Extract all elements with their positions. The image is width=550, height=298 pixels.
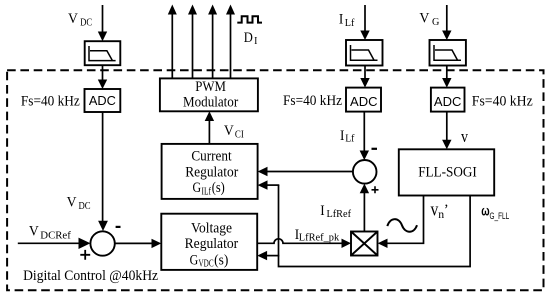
- node VDC input label: [68, 10, 92, 29]
- wire FLL-SOGI omega output down and left: [279, 185, 471, 266]
- current regulator GILf: [162, 144, 258, 199]
- svg-text:Digital Control @40kHz: Digital Control @40kHz: [23, 268, 158, 284]
- label ILfRef: [320, 202, 351, 220]
- svg-text:V: V: [67, 194, 77, 211]
- FLL-SOGI block: [399, 149, 494, 195]
- svg-text:PWM: PWM: [195, 79, 226, 95]
- label DI: [244, 29, 258, 47]
- wire ILf input to filter F2: [360, 5, 369, 40]
- svg-text:Regulator: Regulator: [185, 164, 238, 180]
- label v: [461, 127, 468, 146]
- svg-text:G_FLL: G_FLL: [490, 211, 510, 221]
- ADC A1: [85, 89, 121, 112]
- ADC A2: [346, 88, 381, 112]
- label Digital Control @40kHz: [23, 268, 158, 284]
- label ILf (sampled): [340, 127, 355, 145]
- wire filter F1 to ADC A1: [98, 65, 107, 89]
- wire PWM gate output 1: [168, 5, 177, 79]
- voltage regulator GVDC: [161, 214, 257, 270]
- label plus at summing node S1: [80, 250, 90, 260]
- wire omega feed into current regulator: [258, 180, 280, 189]
- wire ADC A1 to summing node S1: [98, 112, 108, 231]
- label vn': [431, 200, 449, 221]
- label Fs=40 kHz (middle): [283, 93, 342, 109]
- svg-text:I: I: [254, 36, 258, 47]
- node ILf input label: [339, 11, 355, 29]
- svg-text:VDC: VDC: [199, 259, 214, 270]
- svg-text:(s): (s): [214, 253, 228, 269]
- svg-text:DC: DC: [79, 201, 91, 212]
- svg-text:V: V: [224, 122, 234, 139]
- label VDCRef: [29, 223, 71, 242]
- svg-text:LfRef: LfRef: [327, 209, 352, 220]
- svg-text:(s): (s): [212, 180, 225, 196]
- svg-text:LfRef_pk: LfRef_pk: [299, 233, 340, 244]
- svg-text:DCRef: DCRef: [40, 230, 71, 241]
- wire VDC input to filter F1: [98, 5, 107, 41]
- wire ADC A2 to summing node S2: [360, 112, 369, 161]
- filter F3 (anti-aliasing low-pass): [430, 40, 466, 66]
- label VCI: [224, 122, 244, 141]
- svg-text:DC: DC: [80, 18, 92, 29]
- svg-text:Modulator: Modulator: [183, 94, 238, 110]
- svg-text:Fs=40 kHz: Fs=40 kHz: [283, 93, 342, 109]
- svg-text:v: v: [461, 127, 468, 146]
- multiplier M1: [351, 232, 378, 256]
- dashed digital-control boundary box: [7, 70, 543, 290]
- wire PWM gate output 2: [188, 5, 197, 79]
- sine wave symbol on vn' wire: [387, 219, 417, 232]
- label omega G_FLL: [481, 203, 509, 221]
- svg-text:Current: Current: [191, 149, 232, 165]
- pulse waveform symbol DI: [237, 16, 262, 22]
- svg-text:G: G: [432, 17, 440, 28]
- svg-text:Fs=40 kHz: Fs=40 kHz: [472, 94, 533, 110]
- wire PWM gate output 3: [208, 5, 217, 79]
- wire PWM gate output 4: [226, 5, 235, 79]
- label plus at summing node S2: [372, 186, 379, 193]
- wire filter F2 to ADC A2: [360, 66, 369, 88]
- svg-text:Lf: Lf: [345, 134, 355, 145]
- svg-text:V: V: [68, 10, 78, 27]
- svg-text:ω: ω: [481, 203, 489, 218]
- svg-text:V: V: [29, 223, 39, 240]
- label Fs=40 kHz (left): [21, 93, 80, 109]
- label Fs=40 kHz (right): [472, 94, 533, 110]
- svg-text:I: I: [320, 202, 324, 219]
- svg-text:FLL-SOGI: FLL-SOGI: [418, 164, 477, 180]
- PWM modulator: [160, 78, 258, 111]
- node VG input label: [419, 9, 439, 28]
- svg-text:Voltage: Voltage: [191, 221, 232, 237]
- filter F1 (anti-aliasing low-pass): [85, 41, 121, 65]
- svg-text:V: V: [419, 9, 429, 26]
- svg-text:I: I: [339, 11, 343, 28]
- filter F2 (anti-aliasing low-pass): [346, 40, 383, 66]
- label ILfRef_pk: [295, 226, 340, 244]
- label minus at summing node S2: [372, 148, 378, 150]
- svg-text:ADC: ADC: [350, 94, 378, 109]
- svg-text:Regulator: Regulator: [185, 236, 239, 252]
- wire multiplier M1 to summing node S2: [360, 184, 369, 232]
- wire current regulator to PWM modulator (VCI): [205, 111, 214, 144]
- label minus at summing node S1: [116, 226, 121, 228]
- svg-text:ADC: ADC: [89, 93, 116, 108]
- wire filter F3 to ADC A3: [442, 66, 451, 88]
- svg-text:CI: CI: [235, 130, 244, 141]
- wire omega feed into voltage regulator: [257, 251, 279, 260]
- svg-text:ILf: ILf: [202, 186, 212, 197]
- label VDC (feedback): [67, 194, 91, 213]
- wire summing node S2 to current regulator: [258, 167, 353, 176]
- svg-text:’: ’: [444, 202, 449, 218]
- svg-text:D: D: [244, 29, 253, 46]
- svg-text:Fs=40 kHz: Fs=40 kHz: [21, 93, 80, 109]
- svg-text:G: G: [190, 253, 199, 269]
- svg-text:ADC: ADC: [434, 94, 462, 109]
- wire FLL-SOGI vn' output to multiplier M1: [378, 196, 424, 249]
- wire summing node S1 to voltage regulator: [115, 239, 162, 248]
- svg-text:Lf: Lf: [345, 18, 355, 29]
- wire ADC A3 to FLL-SOGI: [442, 112, 451, 150]
- wire VG input to filter F3: [442, 5, 451, 40]
- wire voltage regulator ILfRef_pk output to multiplier M1 (with hop): [257, 239, 351, 248]
- svg-text:G: G: [193, 180, 202, 196]
- wire VDCRef input to summing node S1: [18, 238, 91, 249]
- svg-text:I: I: [340, 127, 344, 144]
- summing node S1: [90, 231, 114, 255]
- ADC A3: [431, 88, 465, 112]
- summing node S2: [353, 160, 377, 184]
